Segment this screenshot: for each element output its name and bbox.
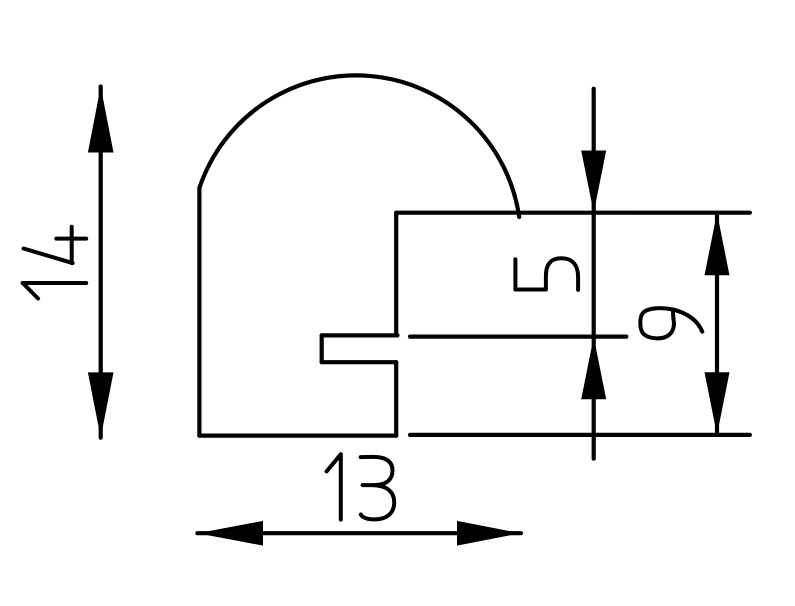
- arrowhead 13 left: [197, 521, 263, 546]
- rabbet notch left: [320, 335, 324, 362]
- arrowhead 5 bottom (pointing up): [581, 337, 606, 399]
- profile rabbet top / top extension line: [396, 211, 750, 215]
- arrowhead 9 bottom (pointing down): [705, 372, 730, 435]
- arrowhead 5 top (pointing down): [581, 151, 606, 213]
- profile right lower edge: [394, 362, 398, 435]
- profile left side: [197, 188, 201, 436]
- label 13 digit 3: [361, 457, 395, 520]
- profile bottom edge: [199, 434, 396, 438]
- label 9 (rotated): [640, 308, 702, 338]
- profile right upper edge: [394, 213, 398, 336]
- label 13 digit 1: [327, 454, 341, 519]
- arrowhead 14 top: [88, 87, 114, 153]
- rabbet notch top: [322, 333, 398, 337]
- profile top arc: [199, 75, 519, 217]
- arrowhead 14 bottom: [88, 372, 114, 437]
- rabbet notch bottom: [322, 360, 397, 364]
- arrowhead 9 top (pointing up): [705, 213, 730, 276]
- label 14 digit 4 (rotated): [24, 227, 87, 263]
- dimension 5 line: [592, 89, 596, 459]
- dimension 13 line: [197, 531, 521, 535]
- label 5 (rotated): [515, 258, 578, 290]
- dimension 9 line: [715, 213, 719, 435]
- middle extension line: [410, 335, 626, 339]
- arrowhead 13 right: [457, 521, 521, 546]
- dimension 14 line: [99, 87, 103, 438]
- bottom extension line: [410, 433, 750, 437]
- label 14 digit 1 (rotated): [23, 283, 86, 299]
